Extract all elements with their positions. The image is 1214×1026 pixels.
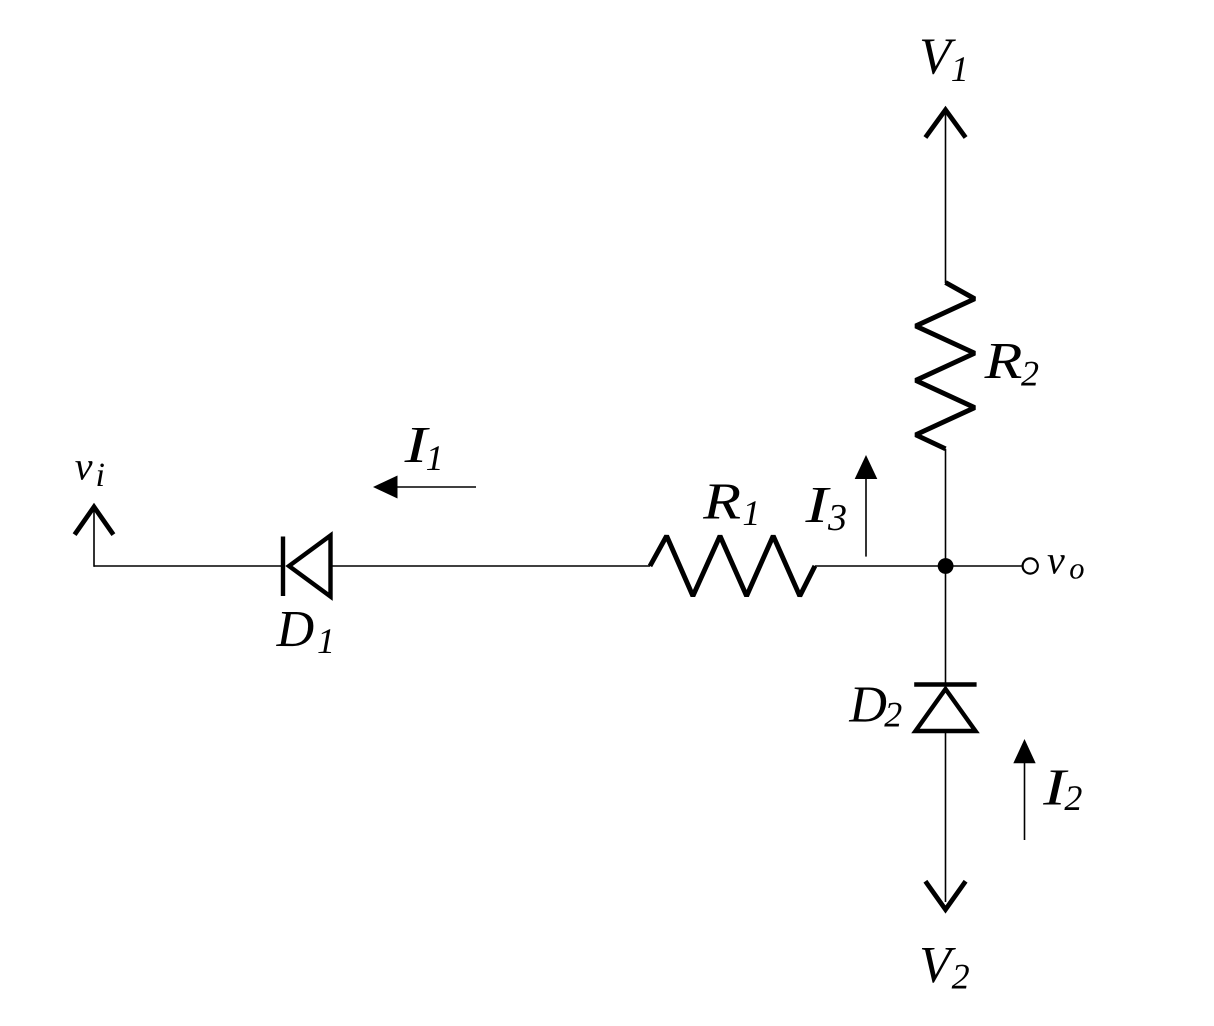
wire: input lead from vi corner to diode D1 <box>94 565 283 567</box>
label V1 <box>919 29 969 89</box>
svg-text:v: v <box>1047 537 1065 582</box>
node label vi <box>75 444 105 494</box>
label I1 <box>403 417 443 478</box>
wire: D1 to R1 <box>332 565 650 567</box>
wire: V1 lead down to R2 <box>945 113 947 284</box>
label R2 <box>983 333 1039 394</box>
svg-text:2: 2 <box>952 957 970 997</box>
current arrow I2 (head) <box>1013 739 1035 763</box>
current arrow I1 (head) <box>373 476 398 499</box>
diode D2 (cathode bar) <box>914 682 976 686</box>
label V2 <box>919 937 970 997</box>
label I3 <box>804 477 847 539</box>
wire: D2 down to V2 arrow <box>945 731 947 902</box>
svg-text:2: 2 <box>884 695 902 735</box>
wire: R1 to node and to output terminal <box>815 565 1022 567</box>
svg-text:D: D <box>276 601 315 658</box>
svg-text:1: 1 <box>426 438 444 478</box>
label D2 <box>848 677 902 735</box>
svg-text:R: R <box>983 333 1022 390</box>
label R1 <box>702 474 760 533</box>
resistor R1 <box>650 536 815 596</box>
svg-text:v: v <box>75 444 93 489</box>
arrow: V2 supply direction arrowhead (open) <box>925 881 965 909</box>
node label vo <box>1047 537 1085 585</box>
resistor R2 <box>916 283 975 449</box>
label I2 <box>1042 760 1083 819</box>
svg-text:1: 1 <box>317 621 335 661</box>
diode D2 (triangle) <box>916 689 976 731</box>
wire: node down to D2 <box>945 566 947 684</box>
svg-text:V: V <box>919 937 956 994</box>
arrow: V1 supply direction arrowhead (open) <box>925 110 965 138</box>
arrow: vi input direction arrowhead (open) <box>75 507 114 535</box>
wire: vi vertical stub <box>93 511 95 567</box>
wire: R2 to node <box>945 449 947 566</box>
svg-text:R: R <box>702 474 741 531</box>
svg-text:D: D <box>848 677 887 734</box>
node junction dot <box>938 558 954 574</box>
svg-text:1: 1 <box>951 49 969 89</box>
diode D1 (cathode bar) <box>281 537 285 597</box>
current arrow I1 (line) <box>396 486 476 488</box>
label D1 <box>276 601 335 661</box>
svg-text:1: 1 <box>742 493 760 533</box>
current arrow I2 (line) <box>1024 762 1026 840</box>
svg-text:i: i <box>96 457 105 494</box>
diode D1 (triangle) <box>289 536 331 597</box>
terminal vo (open circle) <box>1023 558 1038 573</box>
svg-text:2: 2 <box>1021 354 1039 394</box>
svg-text:o: o <box>1069 552 1084 586</box>
svg-text:3: 3 <box>827 497 847 539</box>
current arrow I3 (head) <box>855 455 878 479</box>
svg-text:2: 2 <box>1064 778 1082 818</box>
current arrow I3 (line) <box>865 477 867 557</box>
